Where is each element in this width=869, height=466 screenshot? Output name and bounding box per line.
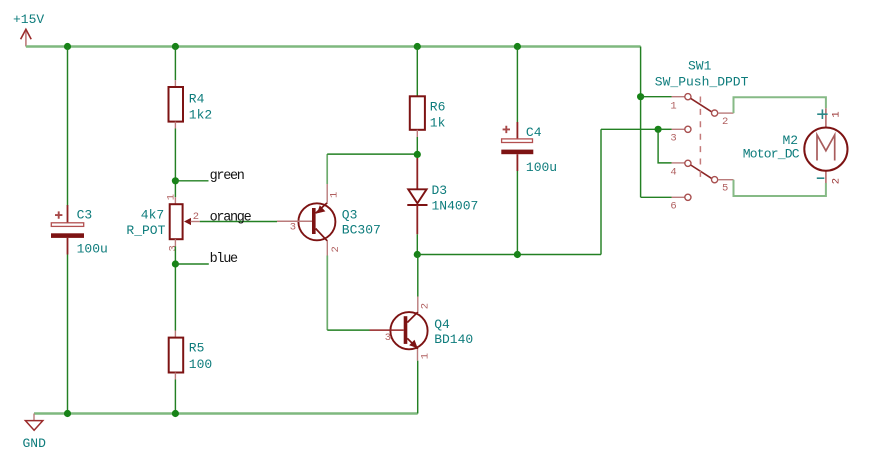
wire C3 top (67, 47, 69, 207)
svg-text:6: 6 (670, 200, 676, 212)
svg-text:1: 1 (419, 353, 431, 359)
wire pin1 stub (641, 96, 672, 98)
capacitor C4 (501, 47, 557, 175)
svg-text:R6: R6 (430, 99, 446, 114)
wire pin5 to motor bottom (734, 180, 826, 196)
junction node green (172, 177, 179, 184)
svg-text:GND: GND (23, 436, 47, 451)
svg-text:C3: C3 (77, 208, 93, 223)
wire bottom rail (34, 412, 418, 414)
wire wiper to Q3 base (200, 221, 277, 223)
wire Q4 collector up (417, 255, 419, 297)
resistor R5 (169, 331, 213, 380)
svg-text:2: 2 (193, 211, 199, 223)
wire R5 bottom (174, 380, 176, 414)
svg-text:2: 2 (330, 246, 342, 252)
junction R4 top (172, 43, 179, 50)
junction node blue (172, 260, 179, 267)
svg-text:C4: C4 (526, 125, 542, 140)
wire Q3 emitter to R6 bottom (327, 153, 417, 155)
ground GND (23, 414, 47, 452)
svg-text:SW1: SW1 (688, 59, 712, 74)
wire pin3 stub (658, 128, 671, 130)
svg-text:Q3: Q3 (342, 208, 358, 223)
svg-text:1: 1 (329, 192, 341, 198)
svg-text:4k7: 4k7 (141, 207, 164, 222)
wire label blue (175, 263, 208, 265)
transistor Q4 BD140 (370, 297, 474, 361)
svg-text:R4: R4 (189, 91, 205, 106)
power flag +15V (13, 12, 44, 47)
svg-text:R5: R5 (189, 341, 205, 356)
svg-text:100u: 100u (77, 241, 108, 256)
junction R5 bottom (172, 410, 179, 417)
wire top rail (26, 45, 641, 47)
wire junction to pin4 (658, 129, 671, 163)
wire R4 top (174, 47, 176, 81)
switch SW1 SW_Push_DPDT (655, 59, 749, 213)
svg-text:5: 5 (722, 182, 728, 194)
svg-text:+15V: +15V (13, 12, 44, 27)
junction R6 top (414, 43, 421, 50)
svg-text:green: green (210, 169, 244, 184)
wire mid rail (417, 254, 601, 256)
wire label green (175, 180, 208, 182)
wire pin6 stub (641, 196, 672, 198)
resistor R4 (169, 80, 213, 128)
svg-text:1N4007: 1N4007 (432, 199, 479, 214)
svg-text:1k2: 1k2 (189, 108, 212, 123)
diode D3 1N4007 (407, 158, 478, 234)
svg-text:100: 100 (189, 357, 212, 372)
junction C4 top (514, 43, 521, 50)
wire top rail corner down (640, 47, 642, 198)
svg-text:2: 2 (419, 303, 431, 309)
svg-text:3: 3 (290, 221, 296, 233)
wire mid rail up right (600, 129, 602, 254)
svg-text:4: 4 (670, 167, 676, 179)
svg-text:2: 2 (830, 178, 842, 184)
svg-text:1k: 1k (430, 116, 446, 131)
wire pin2 to motor top (734, 97, 826, 113)
wire D3 to junction (416, 234, 418, 254)
junction C4 bottom (514, 251, 521, 258)
junction pin3 (655, 126, 662, 133)
junction D3 bottom (414, 251, 421, 258)
svg-text:1: 1 (670, 100, 676, 112)
wire C4 bottom (516, 171, 518, 255)
wire Q3 collector down (326, 256, 328, 331)
svg-text:1: 1 (166, 194, 178, 200)
svg-text:3: 3 (670, 133, 676, 145)
svg-text:blue: blue (210, 252, 238, 267)
resistor R6 (410, 47, 446, 138)
transistor Q3 BC307 (277, 184, 381, 256)
wire R6 to D3 (416, 137, 418, 160)
wire Q3 collector to Q4 base (327, 329, 369, 331)
svg-text:R_POT: R_POT (126, 223, 165, 238)
svg-text:Motor_DC: Motor_DC (743, 146, 800, 161)
svg-text:2: 2 (722, 116, 728, 128)
capacitor C3 (51, 205, 108, 256)
svg-text:100u: 100u (526, 160, 557, 175)
wire Q3 emitter up (326, 154, 328, 184)
junction C3 top (64, 43, 71, 50)
svg-text:1: 1 (830, 111, 842, 117)
svg-text:BC307: BC307 (342, 223, 381, 238)
wire Q4 emitter down (417, 361, 419, 414)
motor M2 Motor_DC (743, 108, 848, 184)
svg-text:3: 3 (167, 245, 179, 251)
junction R6 bottom (414, 151, 421, 158)
potentiometer R_POT 4k7 (126, 194, 199, 252)
svg-text:3: 3 (385, 332, 391, 344)
wire R4 to pot (174, 129, 176, 198)
svg-text:Q4: Q4 (434, 317, 450, 332)
junction C3 bottom (64, 410, 71, 417)
wire to pin3 junction (601, 128, 658, 130)
junction top rail right (637, 93, 644, 100)
svg-text:D3: D3 (432, 183, 448, 198)
svg-text:BD140: BD140 (434, 332, 473, 347)
wire pot bottom (174, 246, 176, 330)
wire C3 bottom (67, 255, 69, 414)
svg-text:orange: orange (210, 210, 252, 225)
svg-text:SW_Push_DPDT: SW_Push_DPDT (655, 75, 749, 90)
